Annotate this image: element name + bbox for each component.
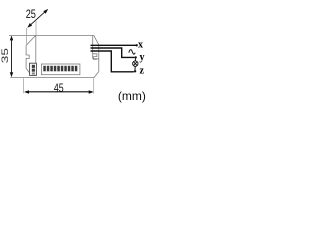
terminal dot x	[136, 44, 138, 46]
module bottom plate	[10, 77, 94, 79]
module right cable clip	[92, 54, 97, 60]
module right chamfer	[94, 35, 99, 45]
svg-text:(mm): (mm)	[118, 89, 146, 103]
dim 35 line	[10, 36, 13, 78]
dim 25 extension lines	[27, 21, 36, 45]
wire y	[91, 48, 135, 57]
wire x	[91, 44, 137, 46]
terminal dot z	[134, 70, 136, 72]
svg-text:25: 25	[26, 7, 36, 21]
terminal strip outline	[41, 64, 80, 75]
svg-text:x: x	[138, 40, 143, 51]
module front panel right edge	[92, 35, 94, 58]
dim 25 line	[27, 9, 48, 28]
dim 45 line	[24, 90, 94, 93]
terminal squares	[43, 66, 77, 72]
svg-text:35: 35	[0, 48, 10, 63]
module left outer edge with notch	[26, 45, 30, 74]
module right outer edge	[93, 45, 99, 77]
svg-text:y: y	[140, 52, 145, 63]
AC tilde symbol	[129, 50, 135, 54]
lamp L1	[133, 59, 138, 71]
connector block	[30, 63, 37, 75]
wire z	[91, 51, 134, 72]
terminal dot y	[135, 56, 137, 58]
module front panel left edge	[35, 35, 37, 63]
module left chamfer	[26, 35, 36, 45]
module top edge with 35-dim extension	[9, 35, 99, 77]
dim 45 extension lines	[24, 78, 94, 93]
svg-text:45: 45	[54, 81, 64, 95]
svg-text:z: z	[140, 66, 145, 77]
